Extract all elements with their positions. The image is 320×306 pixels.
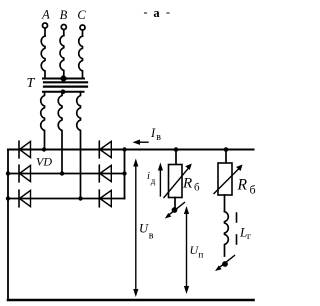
svg-text:R: R — [182, 176, 192, 192]
diode VD2 (left middle) — [19, 165, 31, 182]
label i_d — [147, 171, 156, 186]
brush contact dot branch 2 — [222, 261, 228, 267]
resistor R2 body — [218, 163, 232, 195]
diode VD3 (left bottom) — [19, 190, 31, 207]
brush arrow branch 2 — [215, 256, 235, 272]
wire terminal A to coil — [44, 28, 46, 36]
inductor LG core dash 2 — [236, 235, 238, 244]
label LG — [239, 225, 251, 243]
junction dot right bus / top rail — [122, 147, 126, 151]
wire below R1 — [174, 198, 176, 209]
junction dot branch 2 — [224, 147, 229, 152]
svg-text:B: B — [60, 8, 68, 22]
label Up — [190, 243, 204, 261]
svg-text:T: T — [27, 76, 36, 91]
terminal A — [43, 23, 48, 28]
junction dot left bus / bottom bridge rail — [6, 196, 10, 200]
brush contact dot branch 1 — [172, 207, 178, 213]
primary star connection wire — [43, 78, 84, 80]
junction dot phase a / top rail — [42, 147, 46, 151]
svg-text:I: I — [150, 126, 156, 140]
rectifier middle rail — [8, 173, 125, 175]
terminal C — [80, 25, 85, 30]
svg-text:i: i — [147, 171, 150, 182]
svg-text:U: U — [139, 222, 149, 236]
secondary star connection wire — [43, 91, 84, 93]
svg-text:R: R — [237, 177, 248, 194]
junction dot left bus / middle rail — [6, 171, 10, 175]
transformer T primary winding C — [79, 36, 83, 79]
figure caption - a - — [144, 5, 171, 20]
wire top rail to R1 — [175, 150, 177, 165]
svg-text:б: б — [194, 182, 200, 194]
left bus wire — [7, 150, 9, 301]
transformer T secondary winding b — [58, 92, 62, 174]
junction dot on secondary star — [61, 89, 66, 94]
inductor LG core dash 1 — [236, 213, 238, 222]
junction dot branch 1 — [174, 147, 179, 152]
svg-text:a: a — [153, 6, 160, 20]
svg-text:д: д — [151, 176, 156, 186]
svg-text:г: г — [247, 232, 251, 242]
svg-text:-: - — [144, 5, 148, 19]
rectifier bottom rail of bridge — [8, 198, 125, 200]
label R2 — [237, 177, 256, 197]
svg-text:A: A — [41, 8, 50, 22]
current arrow i_d — [158, 163, 163, 197]
svg-text:VD: VD — [36, 155, 52, 169]
diode VD6 (right bottom) — [99, 190, 111, 207]
label R1 — [182, 176, 200, 194]
transformer core line 2 — [44, 85, 87, 87]
wire terminal C to coil — [82, 30, 84, 36]
diode VD4 (right top) — [99, 141, 111, 158]
transformer T secondary winding a — [41, 92, 45, 150]
diode VD1 (left top) — [19, 141, 31, 158]
voltage arrow Up — [184, 206, 189, 294]
inductor LG winding — [225, 212, 229, 257]
terminal B — [61, 25, 66, 30]
rectifier top rail — [8, 148, 254, 150]
wire terminal B to coil — [63, 30, 65, 36]
right bus wire — [124, 150, 126, 199]
brush arrow branch 1 — [165, 203, 185, 219]
label IB — [150, 126, 161, 143]
junction dot phase b / middle rail — [60, 171, 64, 175]
bottom return rail — [8, 299, 254, 302]
svg-text:п: п — [198, 251, 203, 261]
svg-text:в: в — [156, 132, 161, 143]
svg-text:б: б — [250, 183, 256, 197]
svg-text:-: - — [166, 5, 170, 19]
label UB — [139, 222, 154, 242]
resistor R1 body — [169, 165, 183, 198]
svg-text:C: C — [77, 8, 86, 22]
svg-text:L: L — [239, 225, 247, 240]
junction diamond on primary star — [60, 75, 67, 82]
transformer T secondary winding c — [77, 92, 81, 199]
wire top rail to R2 — [225, 150, 227, 164]
transformer core line 1 — [44, 81, 87, 83]
resistor R1 adjustment arrow — [164, 164, 192, 198]
current arrow IB — [133, 140, 149, 145]
transformer T primary winding B — [60, 36, 64, 79]
transformer T primary winding A — [41, 36, 45, 79]
resistor R2 adjustment arrow — [214, 165, 243, 194]
junction dot right bus / middle rail — [122, 171, 126, 175]
wire R2 to inductor — [224, 195, 226, 212]
voltage arrow UB — [133, 159, 138, 298]
svg-text:в: в — [149, 231, 154, 242]
diode VD5 (right middle) — [99, 165, 111, 182]
junction dot phase c / bottom bridge rail — [78, 196, 82, 200]
